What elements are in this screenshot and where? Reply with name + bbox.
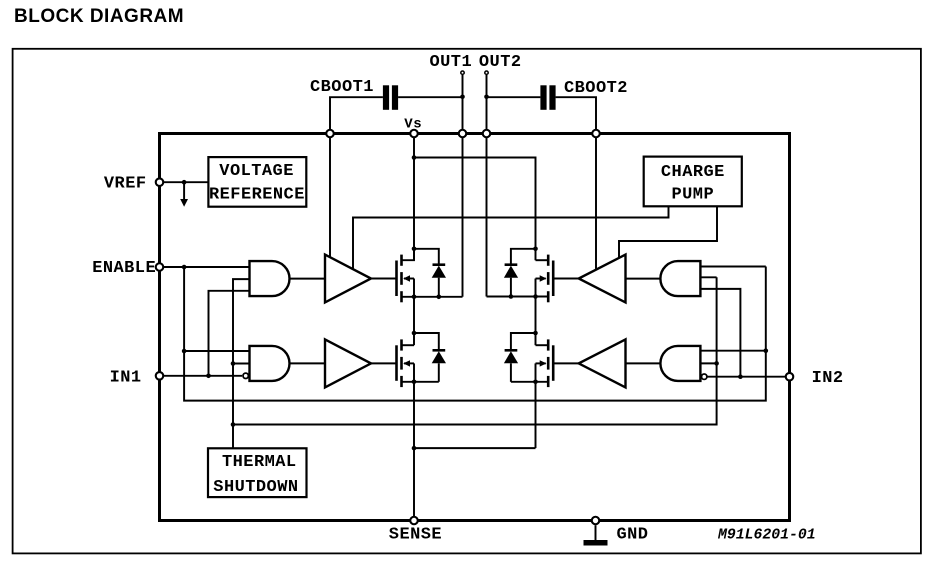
junction ENABLE tap: [182, 265, 187, 270]
wire thermal to lower-left AND input: [233, 363, 250, 365]
terminal Vs / node CBOOT1 on rail: [326, 130, 334, 138]
transistor Q4 lower-right DMOS: [511, 297, 553, 388]
buffer B2 lower-left driver: [325, 339, 371, 387]
gate A2 lower-left AND: [250, 346, 290, 381]
wire CBOOT2 right plate to Vs rail: [556, 97, 596, 133]
terminal VREF: [156, 178, 164, 186]
svg-text:VREF: VREF: [104, 175, 147, 194]
wire IN1 riser to upper-left AND input: [209, 291, 250, 376]
wire A2 output to buffer B2: [290, 362, 326, 364]
junction ENABLE lower-right tap: [764, 348, 769, 353]
gate A4 lower-right AND: [660, 346, 700, 381]
terminal GND: [592, 517, 600, 525]
svg-text:BLOCK DIAGRAM: BLOCK DIAGRAM: [14, 6, 184, 27]
buffer B1 upper-left driver: [325, 255, 371, 303]
junction Q4 drain: [533, 331, 538, 336]
svg-text:M91L6201-01: M91L6201-01: [717, 528, 816, 544]
wire IN1 terminal to lower-left AND inverting input: [164, 375, 242, 377]
svg-text:PUMP: PUMP: [672, 186, 715, 205]
svg-text:VOLTAGE: VOLTAGE: [219, 162, 294, 181]
wire A1 output to buffer B1: [290, 278, 326, 280]
wire Vs rail drop to right high-side driver supply: [595, 134, 597, 269]
junction D3 anode: [509, 294, 514, 299]
wire ENABLE distribution run (down, across, up to right AND gates): [184, 267, 766, 401]
diode D3 body diode of Q3: [504, 249, 536, 297]
junction Vs branch: [412, 155, 417, 160]
wire ENABLE to upper-right AND input: [700, 266, 765, 268]
svg-text:CBOOT2: CBOOT2: [564, 79, 628, 98]
wire thermal to upper-right AND input: [700, 276, 716, 278]
diode D2 body diode of Q2: [414, 333, 446, 382]
junction thermal run tap: [231, 422, 236, 427]
terminal IN1: [156, 372, 164, 380]
terminal OUT2: [485, 71, 488, 74]
wire thermal to lower-right AND input: [700, 362, 716, 364]
gate A3 upper-right AND: [660, 261, 700, 296]
junction thermal lower-left tap: [231, 361, 236, 366]
bubble A2 inverting input: [243, 373, 248, 378]
svg-text:CHARGE: CHARGE: [661, 163, 725, 182]
junction IN2 tap: [738, 374, 743, 379]
svg-text:GND: GND: [617, 526, 649, 545]
wire OUT1 stem down to left half-bridge output node: [462, 75, 464, 297]
junction Q3 source node: [533, 294, 538, 299]
block U2 charge pump box: [644, 157, 742, 207]
terminal ENABLE: [156, 263, 164, 271]
svg-text:ENABLE: ENABLE: [92, 259, 156, 278]
gate A1 upper-left AND: [250, 261, 290, 296]
wire CBOOT1 left plate to Vs rail: [330, 97, 383, 133]
svg-text:THERMAL: THERMAL: [222, 453, 297, 472]
junction D1 anode: [437, 295, 442, 300]
transistor Q1 upper-left DMOS: [397, 249, 463, 302]
wire OUT2 stem down to right half-bridge output node: [486, 75, 488, 297]
wire Q4 source down to sense link: [535, 382, 537, 448]
junction VREF tap: [182, 180, 187, 185]
chip boundary: [160, 134, 790, 521]
junction Q1 drain: [412, 247, 417, 252]
ground symbol: [584, 525, 608, 545]
diode D1 body diode of Q1: [414, 249, 446, 297]
wire OUT2 node to CBOOT2 left plate: [487, 96, 541, 98]
wire ENABLE to lower-right AND input: [700, 350, 765, 352]
terminal IN2: [786, 373, 794, 381]
svg-text:IN2: IN2: [812, 369, 844, 388]
capacitor CBOOT2: [540, 85, 555, 110]
svg-text:IN1: IN1: [110, 368, 142, 387]
junction ENABLE lower-left tap: [182, 349, 187, 354]
wire Q2 source down to SENSE: [413, 382, 415, 521]
wire CBOOT1 right plate to OUT1 node: [398, 96, 462, 98]
svg-text:SENSE: SENSE: [389, 526, 442, 545]
bubble A4 inverting input: [702, 374, 707, 379]
junction IN1 tap: [206, 374, 211, 379]
svg-text:CBOOT1: CBOOT1: [310, 78, 374, 97]
junction OUT2/CBOOT2: [484, 95, 489, 100]
transistor Q2 lower-left DMOS: [397, 297, 439, 387]
buffer B4 lower-right driver: [579, 339, 626, 387]
transistor Q3 upper-right DMOS: [487, 255, 554, 303]
wire B3 output to Q3 gate: [553, 278, 579, 280]
wire B2 output to Q2 gate: [371, 362, 397, 364]
junction Q2 source node: [412, 380, 417, 385]
arrow VREF down: [180, 199, 188, 207]
junction Q3 drain: [533, 247, 538, 252]
wire thermal shutdown output riser to upper-left AND input: [233, 279, 250, 448]
junction OUT1/CBOOT1: [460, 95, 465, 100]
block U3 thermal shutdown box: [208, 448, 307, 497]
wire sense link across: [414, 447, 536, 449]
capacitor CBOOT1: [383, 85, 398, 110]
wire ENABLE terminal to upper-left AND input: [164, 266, 250, 268]
svg-text:OUT1: OUT1: [430, 53, 473, 72]
wire VREF terminal to voltage reference box: [164, 181, 208, 183]
junction Q4 source node: [533, 380, 538, 385]
wire thermal distribution run to right AND gates: [233, 277, 717, 424]
svg-text:OUT2: OUT2: [479, 53, 522, 72]
wire Vs rail drop to left high-side driver supply: [329, 134, 331, 258]
junction thermal lower-right tap: [714, 361, 719, 366]
wire ENABLE to lower-left AND input: [184, 350, 249, 352]
wire B1 output to Q1 gate: [371, 278, 397, 280]
wire IN2 terminal to lower-right AND inverting input: [707, 376, 785, 378]
wire VREF tap arrow stem: [183, 182, 185, 200]
terminal Vs: [410, 130, 418, 138]
wire Vs branch to upper-right MOSFET drain: [414, 158, 536, 261]
svg-text:SHUTDOWN: SHUTDOWN: [213, 478, 298, 497]
junction Q1 source node: [412, 295, 417, 300]
terminal SENSE: [410, 517, 418, 525]
svg-text:Vs: Vs: [404, 116, 422, 132]
junction SENSE node: [412, 446, 417, 451]
node OUT1 rail crossover: [459, 130, 467, 138]
diode D4 body diode of Q4: [504, 333, 536, 382]
wire B4 output to Q4 gate: [553, 362, 579, 364]
wire IN2 riser to upper-right AND input: [700, 289, 740, 377]
buffer B3 upper-right driver: [579, 255, 626, 303]
wire A4 output to buffer B4: [626, 362, 661, 364]
node OUT2 rail crossover: [483, 130, 491, 138]
svg-text:REFERENCE: REFERENCE: [209, 186, 305, 205]
wire Vs drop to upper-left MOSFET drain: [413, 134, 415, 261]
node CBOOT2 on rail: [592, 130, 600, 138]
block U1 voltage reference box: [208, 157, 306, 207]
wire charge pump output right branch: [619, 206, 717, 257]
junction Q2 drain: [412, 331, 417, 336]
wire A3 output to buffer B3: [626, 278, 661, 280]
terminal OUT1: [461, 71, 464, 74]
wire charge pump output left branch: [353, 206, 669, 268]
